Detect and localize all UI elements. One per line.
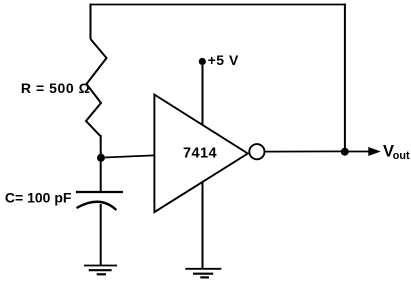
svg-text:R = 500 Ω: R = 500 Ω (21, 80, 91, 96)
svg-text:out: out (393, 150, 410, 162)
svg-text:C= 100 pF: C= 100 pF (5, 190, 72, 206)
svg-text:7414: 7414 (183, 146, 217, 162)
svg-text:+5 V: +5 V (208, 52, 239, 68)
